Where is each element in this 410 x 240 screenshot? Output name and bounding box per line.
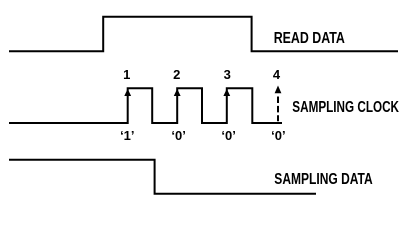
sampling arrow 2 head <box>174 89 181 96</box>
SAMPLING DATA waveform <box>9 160 316 194</box>
svg-text:3: 3 <box>224 67 231 82</box>
sampling arrow 3 head <box>223 89 230 96</box>
svg-text:READ DATA: READ DATA <box>274 30 345 47</box>
svg-text:‘0’: ‘0’ <box>221 128 235 143</box>
svg-text:4: 4 <box>273 67 281 82</box>
READ DATA waveform <box>9 17 398 52</box>
sampling arrow 4 head <box>275 86 282 94</box>
svg-text:SAMPLING CLOCK: SAMPLING CLOCK <box>292 99 399 116</box>
svg-text:‘0’: ‘0’ <box>271 128 285 143</box>
svg-text:2: 2 <box>173 67 180 82</box>
sampling arrow 4 dashed shaft <box>277 97 279 122</box>
svg-text:‘0’: ‘0’ <box>171 128 185 143</box>
svg-text:SAMPLING DATA: SAMPLING DATA <box>274 171 372 188</box>
svg-text:‘1’: ‘1’ <box>120 128 134 143</box>
sampling arrow 1 head <box>124 89 131 96</box>
SAMPLING CLOCK waveform <box>9 88 282 123</box>
svg-text:1: 1 <box>123 67 130 82</box>
